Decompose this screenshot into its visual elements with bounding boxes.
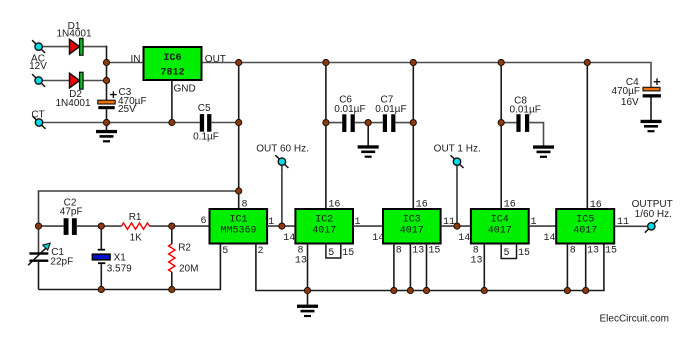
- node C3 CT junction: [103, 119, 109, 125]
- node R2 top junction: [169, 223, 175, 229]
- ground under C8: [533, 145, 554, 158]
- svg-text:14: 14: [372, 233, 384, 244]
- svg-text:20M: 20M: [179, 264, 198, 275]
- svg-text:3.579: 3.579: [107, 264, 132, 275]
- svg-text:7812: 7812: [160, 68, 184, 79]
- node C8 left junction: [498, 120, 504, 126]
- svg-text:1N4001: 1N4001: [55, 98, 90, 109]
- svg-text:5: 5: [504, 248, 510, 259]
- terminal OUT 1Hz: [451, 155, 464, 168]
- svg-text:0.01µF: 0.01µF: [334, 104, 365, 115]
- wire IC5 pin8 stub: [566, 244, 568, 291]
- ground under C4: [641, 120, 662, 133]
- terminal OUTPUT: [645, 220, 658, 233]
- node C5 right junction: [236, 119, 242, 125]
- resistor R1: [122, 223, 150, 229]
- svg-text:GND: GND: [174, 84, 196, 95]
- svg-text:MM5369: MM5369: [220, 225, 256, 236]
- svg-text:15: 15: [342, 248, 354, 259]
- wire C6 left lead: [326, 122, 342, 124]
- node X1 bottom junction: [98, 286, 104, 292]
- svg-text:12V: 12V: [29, 61, 47, 72]
- op IC4 box: [471, 209, 529, 244]
- wire feedback line pin8 junction to left: [39, 191, 239, 252]
- svg-text:OUT 60 Hz.: OUT 60 Hz.: [256, 143, 309, 154]
- node IC6 GND junction: [169, 119, 175, 125]
- svg-text:OUT 1 Hz.: OUT 1 Hz.: [434, 143, 481, 154]
- wire C4 bottom lead: [650, 98, 652, 121]
- op IC6 regulator box: [144, 47, 202, 80]
- svg-text:1/60 Hz.: 1/60 Hz.: [635, 209, 672, 220]
- crystal X1: [92, 226, 110, 289]
- node IC4 bus junction: [481, 287, 487, 293]
- wire C5 right lead: [211, 122, 239, 124]
- wire IC2 pin5-15 loop: [326, 244, 341, 259]
- node IC3 pin13 bus junction: [407, 287, 413, 293]
- terminal AC top: [32, 40, 45, 53]
- svg-text:16: 16: [416, 199, 428, 210]
- wire vertical drop to IC4 pin16: [500, 63, 502, 210]
- wire IC4 pin5-15 loop: [501, 244, 516, 259]
- wire IC3 pin15 stub: [426, 244, 428, 291]
- svg-text:8: 8: [570, 245, 576, 256]
- capacitor C6: [342, 114, 355, 132]
- svg-text:IC5: IC5: [576, 214, 594, 225]
- node D1 cathode junction: [103, 59, 109, 65]
- wire C8 right lead to ground: [529, 123, 543, 146]
- svg-text:16: 16: [590, 200, 602, 211]
- svg-text:C5: C5: [198, 103, 211, 114]
- svg-text:IC4: IC4: [491, 214, 509, 225]
- node IC3 pin15 bus junction: [423, 287, 429, 293]
- node IC2 ground junction: [304, 287, 310, 293]
- wire vertical drop to IC3 pin16: [412, 63, 414, 210]
- node bus IC3 drop: [410, 59, 416, 65]
- capacitor C2: [64, 218, 77, 235]
- svg-text:IN: IN: [131, 54, 141, 65]
- node bus IC5 drop: [584, 59, 590, 65]
- wire IC2 pin1 to IC3 pin14: [353, 225, 383, 227]
- capacitor C1 trimmer: [28, 243, 50, 289]
- wire D2 anode from AC terminal: [42, 80, 70, 82]
- ground under C3: [96, 123, 117, 143]
- diode D2: [70, 72, 84, 89]
- wire IC3 pin11 to IC4 pin14: [441, 225, 471, 227]
- svg-text:22pF: 22pF: [50, 257, 73, 268]
- wire rectifier output vertical: [106, 46, 108, 101]
- svg-text:IC1: IC1: [229, 214, 247, 225]
- svg-text:470µF: 470µF: [611, 86, 640, 97]
- svg-text:15: 15: [428, 245, 440, 256]
- svg-text:1K: 1K: [130, 232, 143, 243]
- capacitor C3 electrolytic: [98, 91, 117, 109]
- svg-text:8: 8: [396, 245, 402, 256]
- svg-text:16: 16: [328, 199, 340, 210]
- svg-text:R2: R2: [178, 242, 191, 253]
- op IC1 box: [210, 209, 268, 244]
- wire D1 anode from AC terminal: [42, 46, 70, 48]
- wire IC4 pin8-13 stub: [483, 244, 485, 291]
- svg-text:14: 14: [283, 233, 295, 244]
- wire IC3 pin13 stub: [409, 244, 411, 291]
- op IC2 box: [295, 209, 353, 244]
- svg-text:47pF: 47pF: [60, 207, 83, 218]
- svg-text:4017: 4017: [312, 225, 336, 236]
- wire IC2 pin8-13 stub: [307, 244, 309, 291]
- node bus IC4 drop: [498, 59, 504, 65]
- svg-text:25V: 25V: [118, 104, 136, 115]
- wire IC1 pin2 stub to ground bus: [256, 244, 604, 291]
- ground under IC2: [297, 291, 318, 318]
- wire oscillator row C2-R1-pin6: [39, 225, 64, 227]
- svg-text:14: 14: [544, 233, 556, 244]
- terminal OUT 60Hz: [275, 155, 288, 168]
- node IC3 pin8 bus junction: [391, 287, 397, 293]
- wire C3 bottom lead: [106, 109, 108, 122]
- wire vertical drop to IC1 pin8: [238, 63, 240, 210]
- wire CT bus: [43, 122, 200, 124]
- capacitor C4 electrolytic: [643, 78, 661, 97]
- wire 12V bus from IC6 OUT to C4: [202, 63, 652, 88]
- svg-text:X1: X1: [114, 253, 127, 264]
- wire IC5 pin13 stub: [585, 244, 587, 291]
- svg-text:OUT: OUT: [205, 54, 226, 65]
- terminal AC bottom: [32, 74, 45, 87]
- node D2 cathode junction: [103, 77, 109, 83]
- svg-text:13: 13: [412, 245, 424, 256]
- wire IC1 pin1 to IC2 pin14: [267, 225, 295, 227]
- node OUT60 tap junction: [279, 223, 285, 229]
- terminal CT: [33, 116, 46, 129]
- wire OUT 60Hz drop: [281, 165, 283, 226]
- svg-text:IC6: IC6: [163, 53, 181, 64]
- svg-text:IC2: IC2: [315, 214, 333, 225]
- svg-text:14: 14: [458, 233, 470, 244]
- svg-text:15: 15: [518, 248, 530, 259]
- svg-text:16V: 16V: [621, 97, 639, 108]
- node C2 left junction: [35, 223, 41, 229]
- svg-text:4017: 4017: [488, 225, 512, 236]
- wire OUT 1Hz drop: [456, 165, 458, 226]
- svg-text:8: 8: [242, 199, 248, 210]
- node R2 bottom junction: [169, 286, 175, 292]
- node OUT1 tap junction: [454, 223, 460, 229]
- op IC3 box: [383, 209, 441, 244]
- node C6 left junction: [323, 120, 329, 126]
- wire D2 cathode to junction: [83, 80, 107, 82]
- svg-text:0.01µF: 0.01µF: [510, 104, 541, 115]
- op IC5 box: [556, 209, 614, 244]
- svg-text:2: 2: [258, 246, 264, 257]
- svg-text:0.01µF: 0.01µF: [375, 104, 406, 115]
- node bus IC1 drop: [236, 59, 242, 65]
- svg-text:16: 16: [504, 199, 516, 210]
- svg-text:6: 6: [200, 216, 206, 227]
- svg-text:15: 15: [605, 245, 617, 256]
- svg-text:4017: 4017: [573, 225, 597, 236]
- wire IC5 pin11 to output terminal: [614, 225, 647, 227]
- wire IC4 pin1 to IC5 pin14: [529, 225, 557, 227]
- node bus IC2 drop: [323, 59, 329, 65]
- svg-text:ElecCircuit.com: ElecCircuit.com: [600, 314, 669, 325]
- wire R1 to IC1 pin6: [150, 225, 210, 227]
- node C7 right junction: [410, 120, 416, 126]
- node feedback pin8 junction: [236, 188, 242, 194]
- wire vertical drop to IC2 pin16: [325, 63, 327, 210]
- svg-text:IC3: IC3: [403, 214, 421, 225]
- wire oscillator bottom bus: [39, 244, 221, 290]
- wire C6-C7 middle: [355, 122, 383, 124]
- svg-text:5: 5: [222, 246, 228, 257]
- wire D1 cathode to corner: [83, 46, 108, 48]
- svg-text:13: 13: [471, 255, 483, 266]
- node C6-C7 ground junction: [365, 120, 371, 126]
- wire C7 right lead: [395, 122, 413, 124]
- svg-text:13: 13: [587, 245, 599, 256]
- svg-text:R1: R1: [129, 212, 142, 223]
- wire vertical drop to IC5 pin16: [586, 63, 588, 210]
- svg-text:5: 5: [328, 248, 334, 259]
- svg-text:13: 13: [295, 255, 307, 266]
- wire IC6 input: [107, 62, 144, 64]
- wire IC3 pin8 stub: [393, 244, 395, 291]
- diode D1: [70, 38, 84, 55]
- svg-text:4017: 4017: [400, 225, 424, 236]
- wire IC6 GND stub: [171, 80, 173, 123]
- node IC5 pin13 bus junction: [583, 287, 589, 293]
- svg-text:0.1µF: 0.1µF: [193, 132, 219, 143]
- node IC5 pin8 bus junction: [564, 287, 570, 293]
- wire C8 left lead: [501, 122, 516, 124]
- capacitor C7: [383, 114, 396, 132]
- svg-text:1N4001: 1N4001: [56, 29, 91, 40]
- node X1 top junction: [98, 223, 104, 229]
- capacitor C5: [200, 114, 212, 132]
- wire C2 to R1: [77, 225, 122, 227]
- resistor R2: [169, 226, 175, 289]
- capacitor C8: [516, 114, 529, 132]
- ground under C6 C7: [358, 123, 379, 158]
